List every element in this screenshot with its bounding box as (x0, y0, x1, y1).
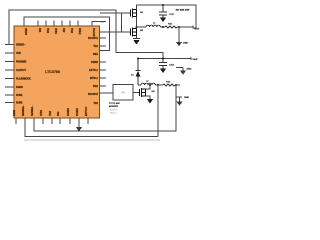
svg-text:SENSE2−: SENSE2− (32, 105, 34, 116)
wire sense line SNSB+ return (34, 85, 176, 131)
svg-text:VBIAS: VBIAS (24, 28, 27, 35)
aux input source box (113, 85, 133, 101)
wire M1 drain to VOUT rail (137, 5, 197, 28)
svg-text:TG2: TG2 (93, 102, 98, 105)
IC U1 LTC3788 controller body (14, 26, 100, 118)
node dot L1/RS junction (162, 26, 164, 28)
wire M3 drain to L2 rail (146, 85, 151, 89)
wire RS2 node to GND port2 (176, 96, 182, 98)
wire SW node to L1 (137, 26, 147, 28)
wire vertical RS2 left to bottom rail (157, 85, 159, 137)
svg-text:VFB1: VFB1 (54, 28, 56, 35)
svg-text:PGOOD: PGOOD (92, 28, 94, 37)
ground at chip bottom pin (76, 118, 82, 132)
top pin stubs (38, 21, 78, 27)
transistor M2 bottom FET (131, 28, 137, 37)
inductor L1 (146, 25, 160, 27)
node dot RS2 right (175, 84, 177, 86)
top pin rotated labels (24, 28, 94, 37)
svg-text:VIN: VIN (121, 92, 125, 95)
resistor RS2 (163, 84, 175, 86)
svg-text:SGND: SGND (16, 86, 23, 89)
node VOUT tick (192, 26, 194, 29)
wire M1 gate feed from top pin (92, 22, 106, 27)
svg-text:PGND: PGND (91, 61, 98, 64)
diode D1 on aux column (136, 59, 141, 86)
svg-text:SS2: SS2 (58, 111, 60, 116)
node dot D1 top (137, 58, 139, 60)
wire chip BOOST2 pin to box (100, 92, 114, 94)
wire L1 to RS1 (160, 26, 165, 28)
svg-text:BOOST2: BOOST2 (88, 93, 99, 96)
svg-text:ITH1: ITH1 (46, 28, 48, 34)
svg-text:ITH2: ITH2 (50, 110, 52, 116)
ground GND terminal port2 (177, 97, 183, 106)
ground GND terminal channel1 (176, 39, 182, 47)
wire L2 to RS2 (155, 84, 163, 86)
wire M2 gate lead (130, 31, 131, 33)
svg-text:LTC3788: LTC3788 (45, 70, 60, 74)
transistor M1 top FET (131, 9, 137, 18)
svg-text:MOSFET: MOSFET (109, 106, 119, 108)
svg-text:VOUT: VOUT (194, 28, 199, 30)
wire M1 gate lead (130, 12, 131, 14)
bottom pin stubs (16, 118, 88, 124)
wire SENSE- loop over top to aux rail (9, 10, 163, 63)
wire top pin to SW1 pin loop (24, 17, 110, 51)
wire rail to GND arrow channel1 (178, 27, 180, 39)
svg-text:COUT: COUT (169, 14, 174, 16)
wire D1 node to L2 (138, 84, 141, 86)
wire to GND terminal aux (176, 67, 183, 69)
ground GND terminal aux (180, 68, 186, 75)
svg-text:EXTVCC: EXTVCC (86, 106, 88, 116)
svg-text:PGND2: PGND2 (77, 107, 79, 116)
svg-text:ITH2: ITH2 (70, 28, 72, 34)
wire gate tie vertical (121, 13, 123, 32)
svg-text:VFB: VFB (16, 52, 21, 55)
svg-text:TA01a: TA01a (110, 112, 117, 115)
svg-text:VFB2: VFB2 (41, 109, 43, 116)
svg-text:GND: GND (187, 69, 192, 71)
wire RS2 right (175, 84, 180, 86)
left pin stubs (5, 45, 14, 103)
ground under M2 (133, 39, 140, 45)
svg-text:EXTVCC: EXTVCC (89, 69, 99, 72)
svg-text:CLKOUT: CLKOUT (16, 69, 26, 72)
svg-text:GND: GND (184, 97, 189, 99)
svg-text:GND: GND (183, 43, 188, 45)
node VAUX tick (190, 57, 192, 60)
inductor L2 (141, 83, 155, 85)
wire M2 source down (136, 36, 138, 39)
bottom pin rotated labels (14, 105, 88, 116)
capacitor CAUX (159, 59, 167, 69)
ground under COUT (160, 18, 166, 23)
capacitor COUT (159, 5, 167, 18)
svg-text:7V TO 40V: 7V TO 40V (109, 103, 120, 105)
svg-text:TG1: TG1 (93, 45, 98, 48)
svg-text:BOOST1: BOOST1 (88, 37, 99, 40)
node dot M3 drain junction (149, 84, 151, 86)
ground under CAUX (162, 66, 164, 69)
document rule line (24, 139, 160, 141)
wire SW node M1 source to M2 drain (136, 17, 138, 29)
svg-text:FREQ: FREQ (78, 28, 80, 35)
svg-text:RUN1: RUN1 (16, 94, 23, 97)
node dot COUT top (162, 4, 164, 6)
svg-text:SS1: SS1 (38, 28, 40, 33)
svg-text:ILIM2: ILIM2 (14, 109, 16, 116)
svg-text:VAUX: VAUX (193, 58, 199, 61)
node dot RS/VOUT junction (178, 26, 180, 28)
wire sense line SNSB- return (25, 118, 158, 137)
wire M3 source to ground (146, 96, 151, 99)
svg-text:SS2: SS2 (62, 28, 64, 33)
svg-text:CAUX: CAUX (169, 64, 175, 67)
wire box to M3 gate (133, 92, 139, 94)
ground under M3 (147, 99, 153, 104)
node dot CAUX top (162, 58, 164, 60)
svg-text:BG2: BG2 (93, 85, 99, 88)
wire aux output rail (138, 58, 191, 60)
svg-text:SENSE2+: SENSE2+ (23, 105, 25, 116)
wire RS1 to VOUT terminal (177, 26, 193, 28)
transistor M3 aux FET (140, 88, 146, 97)
node dot SW junction (136, 26, 138, 28)
svg-text:RUN2: RUN2 (16, 102, 23, 105)
right pin stubs (100, 38, 107, 86)
svg-text:PHASMD: PHASMD (16, 61, 27, 64)
svg-text:SGND2: SGND2 (68, 107, 70, 116)
resistor RS1 (165, 26, 177, 28)
svg-text:378812: 378812 (110, 110, 118, 112)
svg-text:40V ABS 50W: 40V ABS 50W (176, 9, 191, 12)
svg-text:INTVCC: INTVCC (90, 77, 99, 80)
node dot RS2 left (157, 84, 159, 86)
wire M1 gate line (100, 12, 130, 14)
svg-text:SW1: SW1 (93, 53, 99, 56)
svg-text:PLLIN/MODE: PLLIN/MODE (16, 78, 31, 81)
wire M2 gate branch (100, 31, 130, 33)
svg-text:SENSE−: SENSE− (16, 44, 26, 47)
